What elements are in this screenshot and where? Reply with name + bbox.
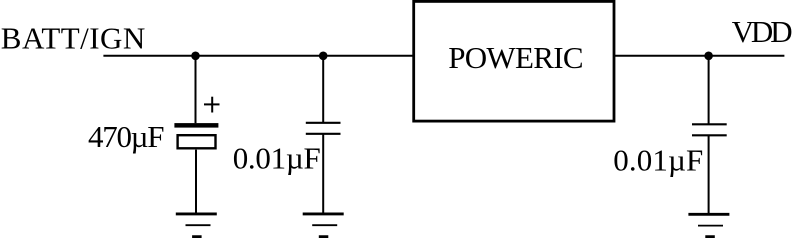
svg-text:470µF: 470µF: [88, 119, 165, 154]
svg-text:POWERIC: POWERIC: [448, 40, 583, 75]
svg-text:VDD: VDD: [732, 14, 793, 49]
svg-text:0.01µF: 0.01µF: [233, 141, 321, 176]
svg-text:0.01µF: 0.01µF: [613, 143, 703, 178]
svg-text:BATT/IGN: BATT/IGN: [1, 21, 146, 56]
